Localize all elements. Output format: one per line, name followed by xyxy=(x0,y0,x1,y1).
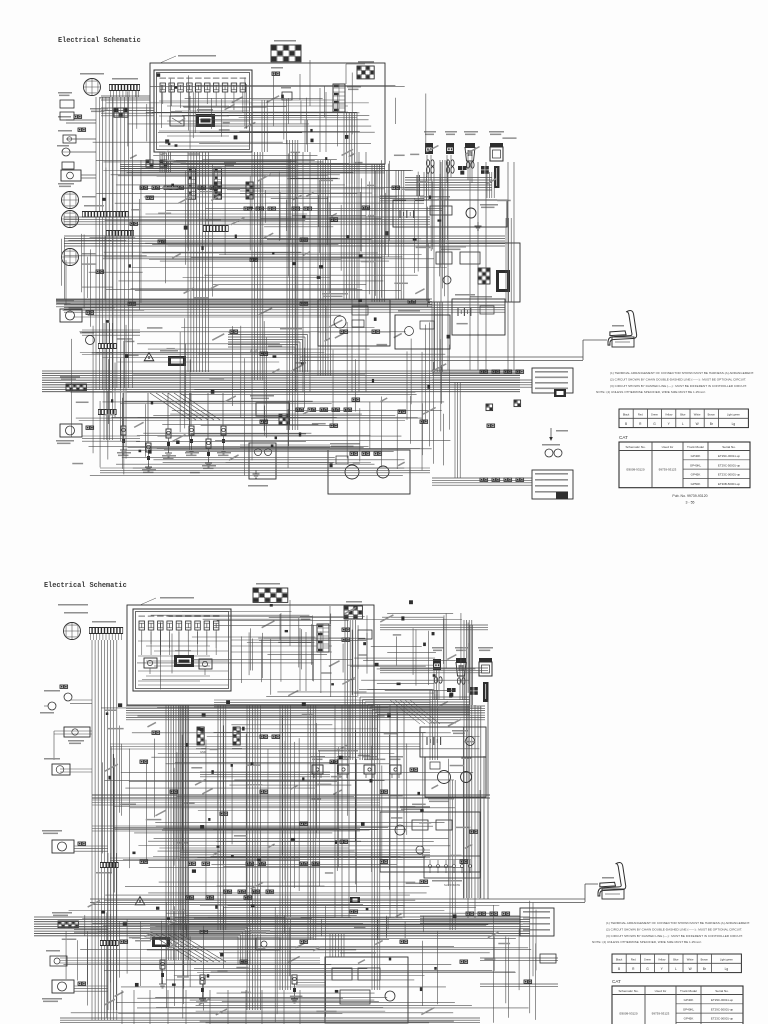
svg-text:L: L xyxy=(675,967,677,971)
controller leads xyxy=(432,302,520,375)
svg-text:Light green: Light green xyxy=(727,412,741,416)
box2 interior mesh xyxy=(247,615,367,696)
vertical bundle 2C xyxy=(247,705,261,1010)
horn 21 xyxy=(44,685,72,701)
hour meter 2 (dark) xyxy=(174,650,194,667)
run y186 short xyxy=(140,186,330,193)
alt cluster xyxy=(250,395,290,425)
svg-text:ET23C-00001-up: ET23C-00001-up xyxy=(718,473,741,477)
tiny blocks p1 top xyxy=(157,73,349,146)
front turn flasher 2 xyxy=(52,912,119,946)
svg-text:ET23C-00001-up: ET23C-00001-up xyxy=(711,1017,734,1021)
svg-text:Br: Br xyxy=(703,967,707,971)
svg-text:G: G xyxy=(653,422,656,426)
mid band y300 xyxy=(56,299,432,307)
labels p1 b xyxy=(72,307,467,473)
pin strip 2b xyxy=(232,727,242,750)
svg-text:(2) CIRCUIT SHOWN BY CHAIN DOU: (2) CIRCUIT SHOWN BY CHAIN DOUBLE-DASHED… xyxy=(610,377,746,381)
fuse panel box xyxy=(154,70,252,152)
vertical bundle 2H xyxy=(464,620,472,898)
labels p2 a xyxy=(104,701,475,890)
svg-text:99739-93123: 99739-93123 xyxy=(659,468,677,472)
svg-text:GP40K: GP40K xyxy=(684,998,694,1002)
diag jogs 2b xyxy=(390,700,440,724)
labels p1 lamps xyxy=(426,137,517,201)
seat wire 2 xyxy=(90,884,598,903)
lamp trio wires xyxy=(214,670,465,707)
safety relay (dark) xyxy=(160,350,186,366)
mid band y218 xyxy=(64,217,430,224)
long verticals p1 mid xyxy=(296,152,366,392)
panel relay grid xyxy=(90,108,128,117)
seat symbol 2 xyxy=(598,863,626,899)
band p1 y305 ext xyxy=(64,305,505,312)
wire mesh p2 low xyxy=(63,900,536,1023)
svg-text:ET29C-00011-up: ET29C-00011-up xyxy=(711,998,733,1002)
svg-text:R: R xyxy=(639,422,642,426)
svg-text:White: White xyxy=(687,957,694,961)
svg-text:Brown: Brown xyxy=(708,412,716,416)
notes page 2 xyxy=(592,921,750,944)
svg-text:3 - 55: 3 - 55 xyxy=(686,501,695,505)
svg-text:L: L xyxy=(682,422,684,426)
comb small 2a xyxy=(96,862,119,874)
speed sensor comb xyxy=(100,78,140,99)
speed comb 2 leads xyxy=(91,634,122,640)
svg-text:Electrical Schematic: Electrical Schematic xyxy=(58,37,141,45)
TM controller leads xyxy=(296,934,344,985)
main vertical bundle D (x287) xyxy=(287,140,298,430)
svg-text:W: W xyxy=(689,967,692,971)
right col bundle p1 xyxy=(506,218,511,302)
svg-text:(3) CIRCUIT SHOWN BY DASHED LI: (3) CIRCUIT SHOWN BY DASHED LINE (––) : … xyxy=(606,934,743,938)
connector circle CN1 xyxy=(80,73,104,96)
svg-text:B: B xyxy=(618,967,620,971)
engine control box 2 xyxy=(380,806,480,872)
svg-text:GP45K: GP45K xyxy=(691,473,701,477)
backup unit xyxy=(248,443,276,487)
wiper 2 xyxy=(64,727,90,744)
left lamp wires 2 xyxy=(74,846,116,1010)
main vertical bundle G (x372) xyxy=(372,164,385,302)
speed comb 2 xyxy=(89,621,123,634)
svg-text:Red: Red xyxy=(638,412,643,416)
left bundle 2 xyxy=(92,640,117,1020)
terminal board TB1 xyxy=(271,40,301,62)
relay R1 in panel xyxy=(170,111,184,126)
svg-text:Yellow: Yellow xyxy=(658,957,666,961)
vertical bundle 2D xyxy=(280,705,290,990)
tiny blocks p2 top xyxy=(270,600,453,697)
small conns 2 xyxy=(342,628,372,641)
svg-text:Electrical Schematic: Electrical Schematic xyxy=(44,582,127,590)
sub connector pair xyxy=(271,67,283,75)
svg-text:Black: Black xyxy=(616,957,623,961)
power relay row xyxy=(311,756,418,778)
long runs p2 y960 xyxy=(60,958,320,963)
vertical bundle 2G xyxy=(430,690,438,760)
seat wire run xyxy=(300,340,607,361)
pub no page 1 xyxy=(672,494,707,505)
wire mesh p1 topextra xyxy=(93,84,369,146)
bottom senders p2 xyxy=(122,990,300,1024)
labels p1 c xyxy=(178,95,280,131)
head lamp 2 RH xyxy=(42,980,86,1002)
wire mesh p1 mid xyxy=(96,153,447,309)
connector row 2 y862 xyxy=(188,862,320,865)
rheostat xyxy=(58,130,76,143)
scatter connectors p1 xyxy=(96,186,428,427)
labels p2 b xyxy=(62,900,510,1016)
lamp leads risers p1x xyxy=(440,160,448,240)
warning triangle 1 xyxy=(144,353,154,361)
horn 22 xyxy=(40,702,56,714)
left col extras p1 xyxy=(58,92,86,169)
p2 right top bundles xyxy=(380,625,488,705)
svg-text:B: B xyxy=(625,422,627,426)
fuse leads 2 ext xyxy=(142,632,216,655)
wire mesh p2 band ext xyxy=(82,915,493,939)
fuse panel 2 bus wires xyxy=(138,630,228,685)
strong pair p2 y795 xyxy=(92,795,490,798)
svg-text:Y: Y xyxy=(668,422,671,426)
svg-text:Lg: Lg xyxy=(732,422,736,426)
main vertical bundle F (x344) xyxy=(344,112,357,300)
svg-text:NOTE: (4) UNLESS OTHERWISE SPE: NOTE: (4) UNLESS OTHERWISE SPECIFIED, WI… xyxy=(596,390,706,394)
svg-text:Br: Br xyxy=(710,422,714,426)
flasher unit row xyxy=(60,376,117,415)
rear comb wires 2 xyxy=(420,916,520,923)
svg-text:Blue: Blue xyxy=(673,957,679,961)
resistor assembly comb xyxy=(82,205,129,218)
harness box outline xyxy=(150,55,385,164)
svg-text:Schematic No.: Schematic No. xyxy=(618,989,638,993)
svg-text:(1) TERMINAL ARRANGEMENT OF CO: (1) TERMINAL ARRANGEMENT OF CONNECTOR SH… xyxy=(606,921,750,925)
main vertical bundle B (x188) xyxy=(188,152,208,372)
connector row 2 y730 xyxy=(152,731,280,738)
vertical bundle 2L xyxy=(180,705,188,930)
wire mesh p1 midright2 xyxy=(250,170,388,253)
alternator box p1 xyxy=(318,293,390,346)
warning triangle 2 xyxy=(135,897,145,905)
seat wire connectors xyxy=(186,896,360,903)
small relay K2 xyxy=(281,87,292,100)
wire color table page 1 xyxy=(619,409,748,428)
head lamp 2 LH xyxy=(42,830,86,853)
sender units row xyxy=(117,426,231,473)
left feed wires xyxy=(101,96,154,116)
labels p2 c xyxy=(261,607,456,697)
svg-text:Serial No.: Serial No. xyxy=(722,445,736,449)
svg-text:ET29C-00011-up: ET29C-00011-up xyxy=(718,454,740,458)
long verticals p1 right xyxy=(434,162,514,370)
connector tag p1 xyxy=(554,389,566,397)
svg-text:Brown: Brown xyxy=(701,957,709,961)
sender feed wires xyxy=(123,393,223,443)
plug lead wires xyxy=(405,155,492,196)
fuse panel 2 box xyxy=(133,609,231,691)
svg-text:Lg: Lg xyxy=(725,967,729,971)
acc box p1 xyxy=(395,310,450,349)
left items wires 2 xyxy=(60,700,92,772)
labels p1 a xyxy=(81,149,430,299)
wiper 2 leads xyxy=(54,731,92,760)
key switch 2 xyxy=(300,616,329,652)
svg-text:E9009-93120: E9009-93120 xyxy=(626,468,644,472)
dimmer switch strip xyxy=(214,162,236,199)
svg-text:GP50K: GP50K xyxy=(691,482,701,486)
diag jogs 2 xyxy=(150,934,226,962)
strong pair p1 y300 xyxy=(56,300,430,303)
harness 2 internal wires xyxy=(231,600,332,691)
main band y373 xyxy=(42,371,520,392)
svg-text:W: W xyxy=(696,422,699,426)
svg-text:(3) CIRCUIT SHOWN BY DASHED LI: (3) CIRCUIT SHOWN BY DASHED LINE (––) : … xyxy=(610,384,747,388)
svg-text:ET29C-50001-up: ET29C-50001-up xyxy=(718,463,741,467)
vertical bundle 2J xyxy=(372,705,380,990)
extra verticals p1 top xyxy=(262,100,308,152)
left small lamp p2 xyxy=(46,950,67,966)
pin strips y182 xyxy=(214,182,253,199)
svg-text:Pub. No. 99739-93120: Pub. No. 99739-93120 xyxy=(672,494,707,498)
long verticals p2 mid xyxy=(335,705,475,918)
starter box 2 xyxy=(425,757,486,802)
svg-text:Yellow: Yellow xyxy=(665,412,673,416)
resistor comb 2 xyxy=(106,230,134,242)
battery box 2 xyxy=(420,722,486,757)
diag jogs xyxy=(150,393,220,420)
wire mesh p2 boxarea xyxy=(137,611,367,697)
mid band 2 y772 xyxy=(200,772,330,777)
connector circle CN2 xyxy=(62,192,97,209)
key switch connector xyxy=(333,84,361,112)
svg-text:GND: GND xyxy=(200,750,206,754)
svg-text:Light green: Light green xyxy=(720,957,734,961)
plug trio page 2 xyxy=(432,647,493,702)
svg-text:ET29C-50001-up: ET29C-50001-up xyxy=(711,1007,734,1011)
hour meter grid xyxy=(357,61,374,79)
svg-text:Truck Model: Truck Model xyxy=(687,445,704,449)
band below harness 2 xyxy=(126,706,485,720)
left connector pair 1 xyxy=(58,115,82,118)
wire color table page 2 xyxy=(612,954,741,973)
tiny blocks p1 xyxy=(102,157,449,467)
wiper motor xyxy=(58,170,81,187)
left wire drops xyxy=(66,97,113,390)
svg-text:Black: Black xyxy=(623,412,630,416)
rear comb cluster 2 xyxy=(466,908,554,936)
connector row 2 y890 xyxy=(224,890,274,893)
long runs p2 y828 xyxy=(92,826,360,831)
wire mesh p1 band ext xyxy=(100,391,450,469)
lighting switch strip xyxy=(176,160,196,199)
wire mesh p1 low xyxy=(70,315,449,475)
connector circle CN4 xyxy=(62,249,97,266)
bundle below fuse panel xyxy=(120,152,171,172)
svg-text:Serial No.: Serial No. xyxy=(715,989,729,993)
mid band 2 y850 xyxy=(180,850,430,857)
vertical bundle 2B xyxy=(166,705,189,960)
relay row label xyxy=(318,750,358,752)
svg-text:Used for: Used for xyxy=(655,989,667,993)
main vertical bundle E (x318) xyxy=(318,160,331,376)
CAT table page 1 xyxy=(619,435,750,488)
left bundle v2 xyxy=(113,97,133,388)
terminal board TB2 xyxy=(253,583,288,602)
safety relay 2 (dark) xyxy=(146,931,170,947)
title page 2 xyxy=(44,582,127,590)
sender 2a xyxy=(159,960,298,1003)
svg-text:(1) TERMINAL ARRANGEMENT OF CO: (1) TERMINAL ARRANGEMENT OF CONNECTOR SH… xyxy=(610,371,754,375)
fuse panel bus wires xyxy=(159,92,249,146)
title page 1 xyxy=(58,37,141,45)
svg-text:99739-93123: 99739-93123 xyxy=(652,1012,670,1016)
svg-text:Y: Y xyxy=(661,967,664,971)
starter box xyxy=(328,443,410,494)
svg-text:Green: Green xyxy=(644,957,652,961)
horn switch xyxy=(57,145,70,156)
svg-text:Blue: Blue xyxy=(680,412,686,416)
pin strip 2a xyxy=(196,727,206,754)
head lamp LH xyxy=(56,300,94,322)
staircase bundle p2b xyxy=(150,925,250,965)
vertical bundle 2M xyxy=(218,705,226,930)
svg-text:GP45K: GP45K xyxy=(684,1017,694,1021)
svg-text:Used for: Used for xyxy=(662,445,674,449)
svg-text:GP40KL: GP40KL xyxy=(683,1007,695,1011)
harness box 2 outline xyxy=(127,597,374,705)
long vertical p2 right edge xyxy=(480,700,488,899)
staircase bundle p2 xyxy=(360,697,470,760)
vertical bundle 2E xyxy=(308,705,316,940)
staircase bundle p1 xyxy=(228,332,310,372)
main vertical bundle C (x252) xyxy=(252,152,263,380)
fuse row F1-F10 xyxy=(160,78,247,93)
long runs p1 y470 xyxy=(100,468,430,473)
vertical bundle 2K xyxy=(450,780,455,930)
wire mesh p1 midleft xyxy=(62,234,147,327)
svg-text:White: White xyxy=(694,412,701,416)
connector row y207 xyxy=(244,207,312,210)
mid band 2 y745 xyxy=(110,744,420,749)
svg-text:ET30B-50001-up: ET30B-50001-up xyxy=(718,482,740,486)
vertical bundle 2I xyxy=(478,706,481,898)
mid band y238 xyxy=(64,236,505,246)
dash plug connectors xyxy=(424,131,504,161)
svg-text:Red: Red xyxy=(631,957,636,961)
main vertical bundle H (x396) xyxy=(396,170,404,300)
slow blow fuses xyxy=(424,856,480,887)
rear comb lamp cluster upper xyxy=(480,368,573,393)
small grids y405 xyxy=(486,400,521,427)
svg-text:Truck Model: Truck Model xyxy=(680,989,697,993)
svg-text:R: R xyxy=(632,967,635,971)
svg-text:NOTE: (4) UNLESS OTHERWISE SPE: NOTE: (4) UNLESS OTHERWISE SPECIFIED, WI… xyxy=(592,940,702,944)
notes page 1 xyxy=(596,371,754,394)
svg-text:SLOW BLOW: SLOW BLOW xyxy=(444,883,461,887)
svg-text:Green: Green xyxy=(651,412,659,416)
band label A-A xyxy=(250,328,302,353)
wire mesh p2 right xyxy=(343,613,475,700)
harness box internal wires xyxy=(252,60,365,152)
relay 2a xyxy=(144,658,157,674)
plug sub-connectors xyxy=(426,160,499,188)
pedal cluster xyxy=(250,930,280,950)
wires to rear lamps xyxy=(432,380,532,485)
dark comb mid xyxy=(203,219,229,232)
relay unit A1 (dark) xyxy=(196,109,215,127)
hour grid 2 xyxy=(344,601,362,619)
long runs p2 y800 xyxy=(92,800,380,805)
vertical bundle 2F xyxy=(345,620,355,760)
svg-text:GP40K: GP40K xyxy=(691,454,701,458)
battery box xyxy=(393,196,507,230)
svg-text:CAT: CAT xyxy=(619,435,628,440)
tiny blocks p2 xyxy=(102,700,457,992)
band y919 page 2 xyxy=(34,917,530,936)
wire mesh p1 top xyxy=(150,72,425,149)
fuse row 2 xyxy=(139,616,220,631)
horn 2 xyxy=(80,332,95,345)
scatter connectors p2 xyxy=(120,760,478,963)
run y168 under box xyxy=(120,167,385,171)
TM controller box xyxy=(325,952,408,1023)
connector row y186 xyxy=(140,186,218,189)
svg-text:(2) CIRCUIT SHOWN BY CHAIN DOU: (2) CIRCUIT SHOWN BY CHAIN DOUBLE-DASHED… xyxy=(606,927,742,931)
svg-text:G: G xyxy=(646,967,649,971)
connector circle CN3 xyxy=(62,211,97,228)
small grids mid-left xyxy=(146,160,178,199)
connector circle CN21 xyxy=(58,604,88,640)
flow arrow xyxy=(549,428,568,441)
ladder under harness box xyxy=(120,165,385,173)
svg-text:E9009-93120: E9009-93120 xyxy=(619,1012,637,1016)
left lamp wires xyxy=(82,323,140,441)
svg-text:Schematic No.: Schematic No. xyxy=(625,445,645,449)
wire mesh p2 mid xyxy=(102,708,482,899)
head lamp RH xyxy=(56,424,94,444)
bottom band p2 xyxy=(60,1018,480,1022)
bottom right runs p2 xyxy=(480,954,558,987)
front comb lamp dark comb xyxy=(96,343,117,354)
svg-text:GP40KL: GP40KL xyxy=(690,463,702,467)
relay 2b xyxy=(199,659,212,675)
connector row y408 xyxy=(296,408,352,411)
controller box xyxy=(428,243,520,302)
regulator box p1 xyxy=(452,294,505,335)
connector row y452 xyxy=(350,452,382,455)
long runs p1 y445 xyxy=(240,445,330,448)
back buzzer xyxy=(542,444,562,457)
long runs p2 y860 xyxy=(110,858,300,861)
svg-text:CAT: CAT xyxy=(612,979,621,984)
riser to lamps xyxy=(380,172,494,203)
speed comb leads xyxy=(111,91,139,97)
rear comb lamp cluster lower xyxy=(480,470,573,499)
CAT table page 2 xyxy=(612,979,743,1024)
lamp unit 2 xyxy=(44,758,70,775)
seat symbol xyxy=(608,311,637,347)
